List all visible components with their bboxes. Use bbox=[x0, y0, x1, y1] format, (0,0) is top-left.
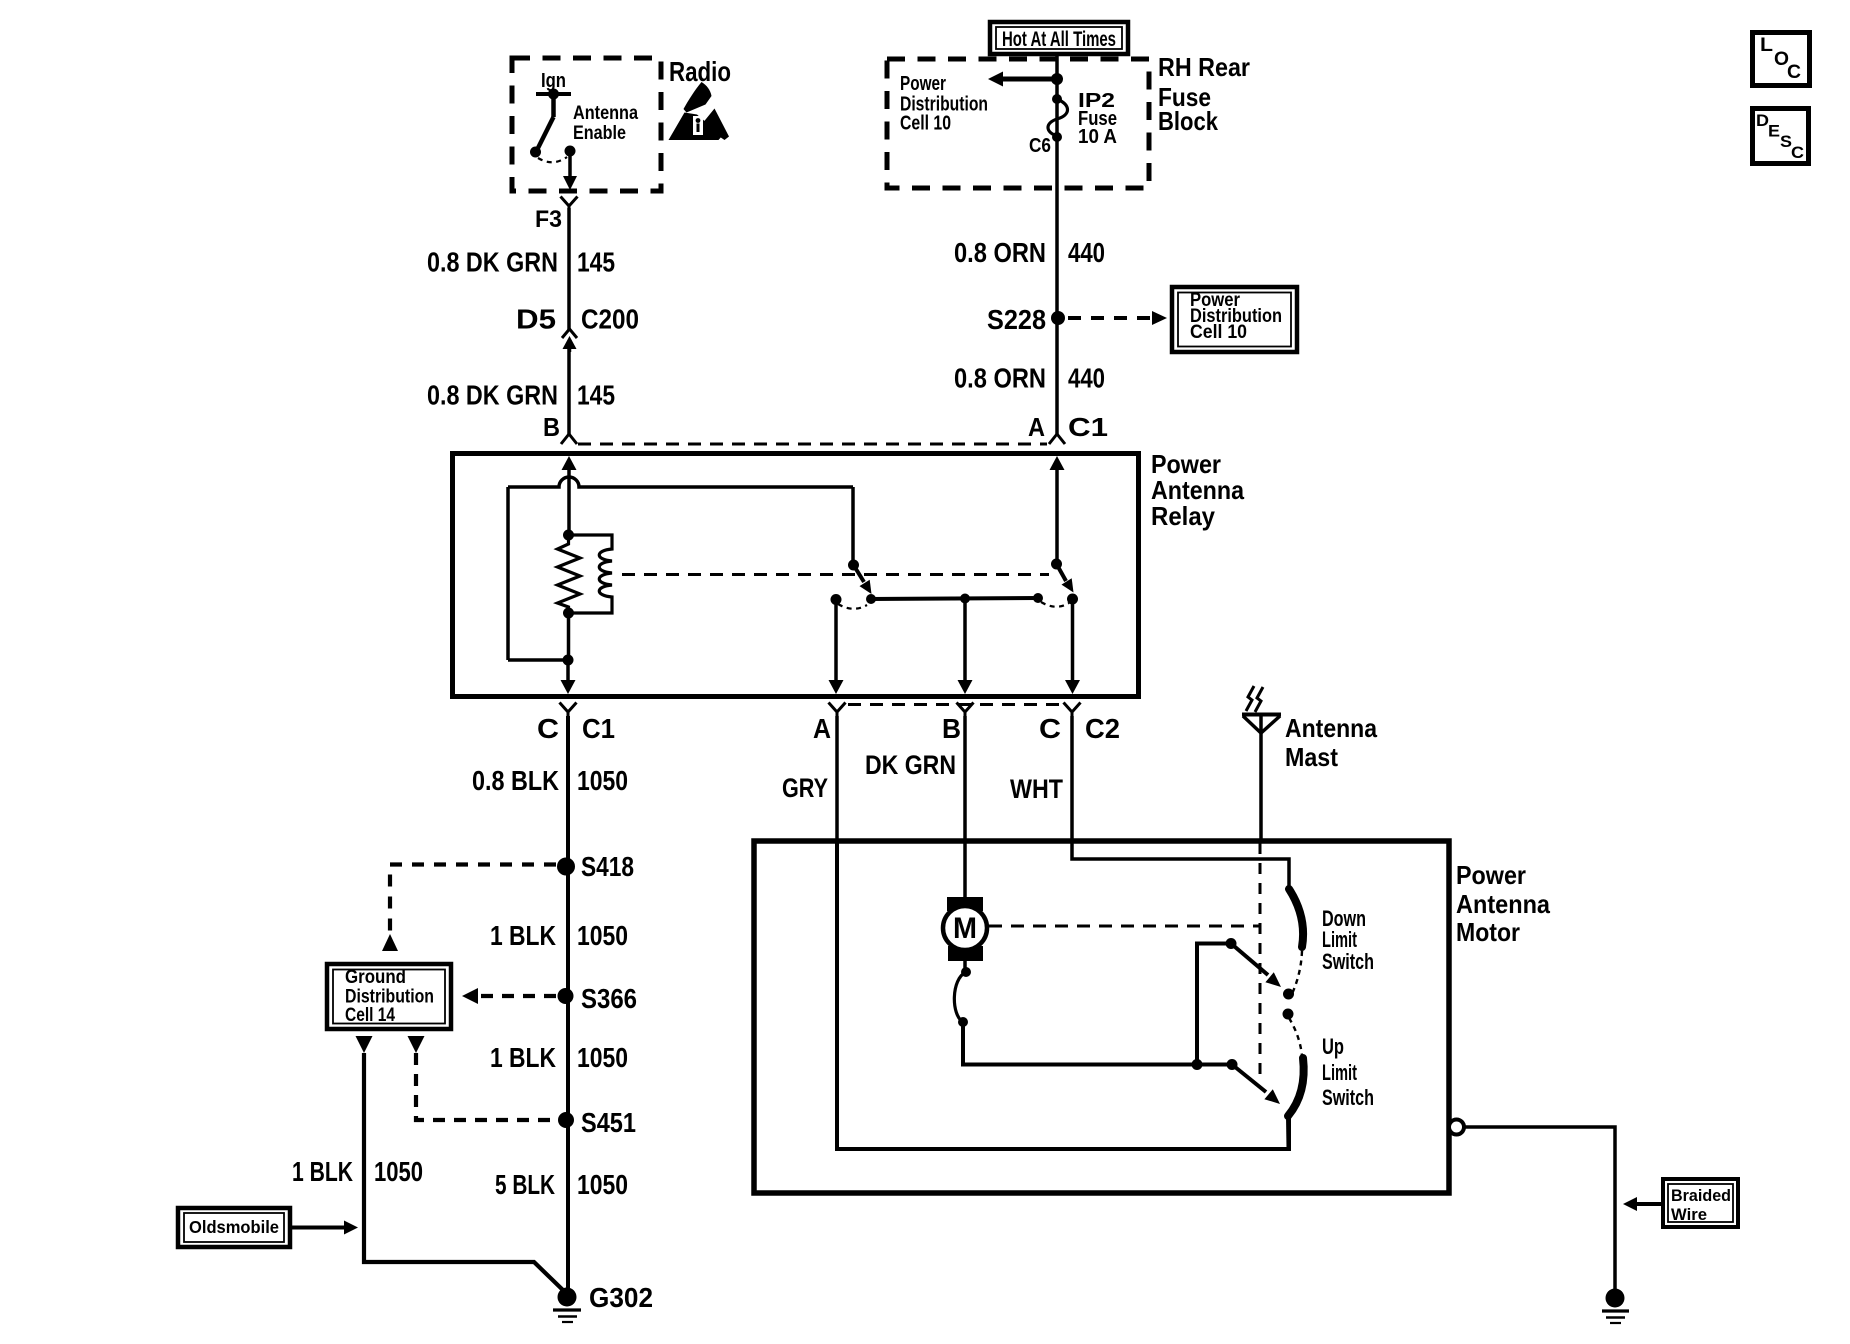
in-line connector C200: male arrow up bbox=[563, 336, 577, 349]
up-limit switch blade arrow bbox=[1232, 1065, 1266, 1093]
dashed reference from S418 to ground distribution bbox=[390, 865, 556, 933]
antenna enable switch: feed bar bbox=[536, 92, 571, 96]
dashed arc from up contact bbox=[1289, 1018, 1302, 1056]
connector pin C of C1 (fork) bbox=[560, 703, 577, 713]
connector pin C of C2 (fork) bbox=[1064, 703, 1081, 713]
arrow to Power Distribution Cell 10 bbox=[988, 72, 1003, 87]
antenna enable switch: right contact dot bbox=[565, 146, 576, 157]
antenna enable switch: pivot dot bbox=[548, 89, 559, 100]
svg-text:S451: S451 bbox=[581, 1107, 636, 1138]
arrow from Braided Wire box bbox=[1637, 1202, 1663, 1206]
relay left movable contact blade bbox=[854, 565, 865, 582]
up limit switch thick arc bbox=[1288, 1058, 1304, 1116]
svg-text:C: C bbox=[1039, 713, 1061, 744]
antenna enable switch: dashed travel arc bbox=[538, 157, 567, 162]
svg-text:M: M bbox=[953, 912, 977, 945]
wire: breaker to limit switch commons bbox=[963, 1022, 1232, 1065]
svg-text:1 BLK: 1 BLK bbox=[292, 1156, 353, 1187]
wire: ckt 145 below C200 bbox=[567, 346, 571, 436]
svg-text:RH Rear: RH Rear bbox=[1158, 52, 1250, 82]
svg-text:0.8 ORN: 0.8 ORN bbox=[954, 237, 1046, 268]
svg-text:C6: C6 bbox=[1029, 135, 1051, 157]
antenna enable switch: stem bbox=[551, 94, 556, 117]
svg-text:Braided: Braided bbox=[1671, 1186, 1731, 1205]
wire: coil return to pin C bbox=[566, 660, 570, 681]
svg-text:Enable: Enable bbox=[573, 123, 626, 144]
splice S451 bbox=[558, 1112, 574, 1128]
relay contact dot (pin C side) bbox=[1067, 594, 1078, 605]
wire: GRY inner run (left/bottom) bbox=[837, 843, 1289, 1149]
svg-text:C: C bbox=[537, 713, 559, 744]
svg-text:10 A: 10 A bbox=[1078, 126, 1117, 148]
wire: relay pin A to movable contact bbox=[1055, 464, 1059, 564]
connector pin F3 (female fork) bbox=[561, 197, 578, 207]
relay right movable contact pivot dot bbox=[1051, 559, 1062, 570]
svg-text:0.8 BLK: 0.8 BLK bbox=[472, 765, 559, 796]
svg-text:1050: 1050 bbox=[577, 920, 628, 951]
wire: mast to motor bbox=[1259, 715, 1263, 844]
svg-text:440: 440 bbox=[1068, 363, 1105, 394]
svg-text:Wire: Wire bbox=[1671, 1205, 1707, 1224]
antenna mast symbol bbox=[1246, 686, 1254, 711]
arrow from Oldsmobile box bbox=[290, 1226, 345, 1230]
DESC reference box bbox=[1753, 109, 1809, 164]
svg-text:Power: Power bbox=[1456, 860, 1526, 890]
wire: contact to pin C (C2) bbox=[1071, 604, 1075, 681]
connector pin A of C1 (fork) bbox=[1049, 434, 1065, 444]
wire: left leg of coil-return bus bbox=[506, 487, 510, 660]
motor case ground terminal bbox=[1449, 1120, 1464, 1135]
svg-text:Up: Up bbox=[1322, 1034, 1344, 1059]
svg-text:Block: Block bbox=[1158, 106, 1218, 136]
wire: ckt 1050 ground run C1-C to G302 bbox=[566, 716, 570, 1292]
svg-text:Limit: Limit bbox=[1322, 1060, 1357, 1085]
svg-text:C: C bbox=[1791, 143, 1804, 162]
svg-text:C2: C2 bbox=[1085, 713, 1120, 744]
svg-text:1050: 1050 bbox=[577, 1169, 628, 1200]
svg-text:S366: S366 bbox=[581, 983, 637, 1014]
wire: bar to pin B bbox=[963, 603, 967, 681]
wire: fused feed ckt 440 bbox=[1055, 53, 1059, 436]
wire: bus down to right movable contact bbox=[851, 487, 855, 563]
svg-text:Cell 14: Cell 14 bbox=[345, 1005, 395, 1026]
svg-text:0.8 DK GRN: 0.8 DK GRN bbox=[427, 247, 558, 278]
wire: feed to power distribution (left arrow) bbox=[1001, 77, 1057, 82]
wire: motor to circuit breaker bbox=[963, 950, 967, 968]
wire: switch output to radio pin F3 bbox=[568, 155, 572, 177]
svg-text:0.8 DK GRN: 0.8 DK GRN bbox=[427, 380, 558, 411]
svg-text:B: B bbox=[543, 412, 560, 442]
svg-text:Cell 10: Cell 10 bbox=[1190, 322, 1247, 343]
box: Ground Distribution Cell 14 bbox=[327, 964, 451, 1029]
connector pin A of C2 (fork) bbox=[829, 703, 846, 713]
connector pin B of C2 (fork) bbox=[957, 703, 974, 713]
wire: contact to pin A bbox=[834, 604, 838, 681]
svg-text:L: L bbox=[1760, 35, 1773, 56]
svg-text:1050: 1050 bbox=[577, 1042, 628, 1073]
svg-text:C1: C1 bbox=[1068, 412, 1108, 442]
arrow: ground distribution output (left) bbox=[356, 1036, 373, 1053]
box: Hot At All Times bbox=[990, 22, 1128, 54]
wire: up arc to bottom bus bbox=[1286, 1116, 1291, 1149]
svg-text:Oldsmobile: Oldsmobile bbox=[189, 1217, 279, 1237]
wire: radio antenna-enable output, ckt 145 bbox=[567, 208, 571, 330]
connector C2 dashed line bbox=[848, 703, 1062, 706]
splice S418 bbox=[557, 858, 575, 876]
LOC reference box bbox=[1753, 33, 1810, 86]
svg-text:5 BLK: 5 BLK bbox=[495, 1169, 555, 1200]
svg-text:Mast: Mast bbox=[1285, 742, 1338, 772]
wire: up to down-limit blade bbox=[1197, 944, 1231, 1065]
connector C1 dashed line bbox=[578, 443, 1047, 446]
wire: WHT up lead bbox=[1072, 716, 1289, 889]
dashed mechanical link coil to contacts bbox=[622, 573, 1049, 576]
svg-text:B: B bbox=[942, 713, 961, 744]
dashed arc to down contact bbox=[1290, 951, 1302, 998]
RH rear fuse block dashed box bbox=[887, 59, 1149, 188]
wire: GRY down lead bbox=[835, 716, 839, 843]
splice S228 bbox=[1051, 311, 1065, 325]
ground (braided wire) bbox=[1606, 1289, 1625, 1308]
svg-text:S418: S418 bbox=[581, 851, 634, 882]
svg-text:Power: Power bbox=[900, 73, 946, 95]
relay coil winding bbox=[569, 535, 613, 613]
wire: coil bottom to bus junction bbox=[567, 613, 571, 665]
junction dot bus/coil return bbox=[563, 655, 574, 666]
svg-text:Ground: Ground bbox=[345, 967, 406, 988]
motor M1 circle bbox=[943, 906, 987, 950]
wire: DK GRN motor lead bbox=[963, 716, 967, 899]
antenna enable switch: left contact dot bbox=[530, 147, 541, 158]
svg-text:Antenna: Antenna bbox=[1456, 889, 1550, 919]
arrow: pin C male exiting relay bbox=[561, 680, 576, 694]
svg-text:GRY: GRY bbox=[782, 773, 828, 803]
icon: ESD sensitivity symbol bbox=[669, 82, 730, 140]
dashed mechanical link: motor to mast bbox=[989, 925, 1260, 928]
dashed rest-position arc right bbox=[1041, 602, 1069, 607]
resistor (relay coil suppression) bbox=[558, 535, 581, 613]
svg-text:S228: S228 bbox=[987, 304, 1046, 335]
splice S366 bbox=[558, 988, 574, 1004]
svg-text:F3: F3 bbox=[535, 206, 562, 233]
svg-text:145: 145 bbox=[577, 247, 615, 278]
svg-text:Switch: Switch bbox=[1322, 949, 1374, 974]
dashed rest-position arc left bbox=[838, 604, 867, 609]
svg-text:145: 145 bbox=[577, 380, 615, 411]
power antenna relay box bbox=[453, 454, 1139, 697]
svg-text:Hot At All Times: Hot At All Times bbox=[1002, 28, 1116, 51]
radio dashed box bbox=[512, 58, 661, 191]
svg-text:A: A bbox=[1028, 412, 1045, 442]
junction dot at fuse feed bbox=[1051, 73, 1063, 85]
fuse IP2 symbol bbox=[1052, 94, 1062, 104]
relay left movable contact pivot dot bbox=[848, 560, 859, 571]
relay right movable contact blade bbox=[1057, 564, 1067, 581]
svg-text:Relay: Relay bbox=[1151, 501, 1215, 531]
wire: 1 BLK 1050 from ground distribution to G302 bbox=[364, 1053, 566, 1293]
power antenna motor box bbox=[754, 841, 1449, 1193]
svg-text:1050: 1050 bbox=[577, 765, 628, 796]
down-limit contact dot bbox=[1283, 989, 1294, 1000]
svg-text:C200: C200 bbox=[581, 304, 639, 335]
wire: relay coil supply inside relay (pin B) bbox=[567, 464, 571, 536]
svg-text:440: 440 bbox=[1068, 237, 1105, 268]
junction dot coil top bbox=[563, 530, 574, 541]
svg-text:WHT: WHT bbox=[1010, 774, 1063, 804]
motor brushes bbox=[947, 897, 983, 911]
arrow: pin A male entering relay bbox=[1050, 456, 1065, 470]
up-limit contact dot bbox=[1283, 1009, 1294, 1020]
svg-text:1 BLK: 1 BLK bbox=[490, 1042, 556, 1073]
svg-text:A: A bbox=[813, 713, 831, 744]
svg-text:Radio: Radio bbox=[669, 56, 731, 87]
svg-text:Antenna: Antenna bbox=[1285, 713, 1377, 743]
down limit switch thick arc bbox=[1289, 889, 1303, 947]
relay contact common bar bbox=[870, 598, 1039, 599]
svg-text:1050: 1050 bbox=[374, 1156, 423, 1187]
dashed reference to S451 bbox=[416, 1053, 553, 1120]
circuit breaker dots and arc bbox=[961, 967, 971, 977]
ground G302 bbox=[558, 1288, 577, 1307]
svg-text:E: E bbox=[1768, 122, 1780, 141]
down-limit switch blade arrow bbox=[1231, 944, 1268, 976]
connector pin B of C1 (fork) bbox=[561, 434, 577, 444]
svg-text:0.8 ORN: 0.8 ORN bbox=[954, 363, 1046, 394]
box: Oldsmobile bbox=[178, 1208, 290, 1247]
svg-text:Antenna: Antenna bbox=[573, 103, 638, 124]
svg-text:Cell 10: Cell 10 bbox=[900, 113, 951, 135]
arrow: pin B male entering relay bbox=[562, 456, 577, 470]
svg-text:G302: G302 bbox=[589, 1282, 653, 1313]
dashed mechanical link: mast to switches bbox=[1259, 843, 1262, 1083]
relay contact dot (pin A side) bbox=[831, 594, 842, 605]
junction dot coil bottom bbox=[563, 608, 574, 619]
svg-text:C: C bbox=[1787, 62, 1801, 83]
svg-text:Switch: Switch bbox=[1322, 1085, 1374, 1110]
in-line connector C200: female half bbox=[562, 329, 577, 338]
wire: coil-return bus (with hop over pin-B wire) bbox=[508, 477, 853, 487]
antenna enable switch: blade bbox=[537, 117, 554, 150]
wire: braided ground strap bbox=[1464, 1127, 1615, 1289]
svg-text:1 BLK: 1 BLK bbox=[490, 920, 556, 951]
svg-text:DK GRN: DK GRN bbox=[865, 750, 956, 780]
svg-text:D5: D5 bbox=[516, 304, 556, 335]
arrow: radio output pin (male, down) bbox=[563, 176, 577, 190]
box: Braided Wire bbox=[1663, 1179, 1738, 1227]
svg-text:C1: C1 bbox=[582, 713, 615, 744]
svg-text:Motor: Motor bbox=[1456, 917, 1520, 947]
dashed reference from S366 bbox=[476, 994, 556, 998]
arrow: ground distribution output (right) bbox=[408, 1036, 425, 1053]
dashed reference arrow from S228 bbox=[1068, 316, 1152, 320]
box: Power Distribution Cell 10 (reference) bbox=[1172, 287, 1297, 352]
